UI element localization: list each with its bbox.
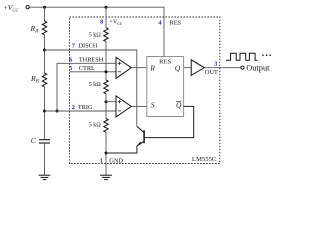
wire comparator U2 output to S: [131, 105, 147, 107]
transistor Q1 discharge: [137, 126, 144, 146]
wire emitter to ground rail: [106, 146, 137, 153]
dashed IC boundary box LM555C: [70, 17, 220, 164]
svg-text:+Vcc: +Vcc: [109, 19, 122, 27]
ground right: [100, 175, 112, 179]
svg-text:8: 8: [100, 18, 103, 25]
wire DISCH horizontal: [45, 49, 137, 51]
ground left: [39, 175, 51, 179]
resistor 5k bottom: [104, 119, 108, 133]
capacitor C: [39, 140, 50, 143]
wire RA bottom to RB top: [44, 35, 46, 73]
terminal Output: [241, 66, 244, 69]
wire Q to output buffer: [184, 67, 192, 69]
svg-text:CTRL: CTRL: [79, 65, 95, 72]
wire DISCH vertical to transistor collector: [136, 50, 138, 126]
node GND junction: [105, 152, 108, 155]
wire top Vcc rail and RES drop: [29, 7, 164, 56]
svg-text:5: 5: [69, 65, 72, 72]
resistor RA: [42, 21, 46, 35]
svg-text:RES: RES: [170, 19, 182, 26]
svg-text:3: 3: [214, 61, 217, 68]
svg-text:2: 2: [72, 104, 75, 111]
op-amp comparator U2 trigger: [116, 96, 131, 117]
node Vcc/pin8 junction: [105, 6, 108, 9]
svg-text:5 kΩ: 5 kΩ: [89, 82, 101, 88]
svg-text:GND: GND: [109, 157, 123, 164]
node CTRL 2/3Vcc: [105, 70, 108, 73]
terminal +Vcc: [26, 6, 29, 9]
node 1/3Vcc: [105, 100, 108, 103]
svg-text:5 kΩ: 5 kΩ: [89, 122, 101, 128]
wire pin8 Vcc drop into divider: [105, 7, 107, 28]
svg-text:TRIG: TRIG: [78, 104, 93, 111]
svg-text:S: S: [151, 100, 155, 109]
wire RA top lead: [44, 7, 46, 21]
resistor 5k top: [104, 28, 108, 42]
resistor RB: [42, 73, 46, 87]
svg-text:R: R: [149, 63, 155, 72]
wire RB bottom to capacitor C: [44, 87, 46, 139]
wire THRESH riser and horizontal: [57, 63, 116, 111]
svg-text:RES: RES: [159, 59, 171, 66]
wire comparator U1 output to R: [131, 67, 147, 69]
buffer amplifier: [191, 60, 204, 76]
node THRESH/TRIG junction: [56, 110, 59, 113]
svg-text:LM555C: LM555C: [192, 156, 217, 163]
svg-text:Q: Q: [175, 63, 181, 72]
svg-text:Output: Output: [246, 64, 270, 73]
wire TRIG horizontal: [45, 110, 117, 112]
wire CTRL horizontal: [70, 71, 117, 73]
wire divider bottom to ground: [105, 132, 107, 175]
wire divider 2: [105, 94, 107, 119]
flip-flop box: [147, 57, 184, 117]
node RB/C/TRIG junction: [43, 110, 46, 113]
node RA/RB/DISCH junction: [43, 49, 46, 52]
svg-text:THRESH: THRESH: [79, 57, 104, 64]
waveform ellipsis dots: [262, 54, 271, 56]
node Vcc/RA junction: [43, 6, 46, 9]
wire 1/3Vcc to comparator2 plus: [106, 101, 116, 103]
svg-text:1: 1: [100, 157, 103, 164]
wire divider 1: [105, 42, 107, 81]
svg-text:5 kΩ: 5 kΩ: [89, 32, 101, 38]
wire OUT to terminal: [204, 67, 241, 69]
wire Qbar to transistor base: [144, 106, 194, 137]
resistor 5k middle: [104, 80, 108, 94]
waveform square wave: [226, 53, 258, 60]
op-amp comparator U1 threshold: [116, 57, 131, 78]
wire C to ground: [44, 143, 46, 175]
svg-text:DISCH: DISCH: [79, 43, 98, 50]
transistor emitter arrow: [137, 142, 141, 146]
svg-text:OUT: OUT: [205, 69, 218, 76]
